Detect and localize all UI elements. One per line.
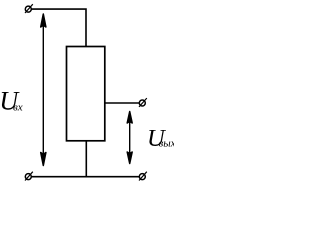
label Uvyx (output voltage): [147, 125, 176, 152]
wire: bottom rail: [31, 176, 139, 178]
terminal: top-right output: [139, 98, 147, 107]
label Uvx (input voltage): [0, 87, 23, 116]
terminal: bottom-left input: [25, 172, 33, 181]
svg-text:вых: вых: [159, 138, 175, 150]
wire: top input from terminal to top of box: [31, 9, 86, 46]
potentiometer body (rectangle): [67, 47, 105, 141]
dimension arrow: input voltage span (left, double-headed): [41, 14, 46, 166]
terminal: bottom-right output: [139, 172, 147, 181]
dimension arrow: output voltage span (right, double-headed): [127, 112, 132, 164]
terminal: top-left input: [25, 4, 33, 13]
svg-text:вх: вх: [13, 102, 23, 114]
wire: output tap from box right side: [105, 102, 139, 104]
wire: bottom stem from box to bottom rail: [85, 141, 87, 177]
